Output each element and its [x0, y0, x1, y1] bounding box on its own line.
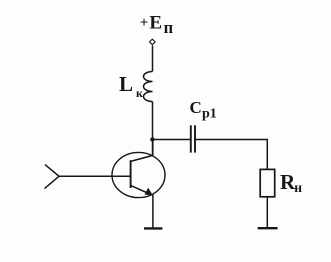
svg-text:+: + — [140, 15, 149, 31]
capacitor Cр1 — [191, 125, 195, 152]
wire: emitter to ground — [152, 195, 154, 229]
ground (emitter side) — [144, 227, 162, 229]
wire: input terminal to base — [59, 175, 131, 177]
svg-text:н: н — [294, 180, 302, 195]
svg-text:к: к — [136, 86, 143, 100]
transistor base line — [130, 160, 132, 188]
wire: junction to capacitor Cр1 — [153, 139, 191, 141]
label Cр1 — [190, 98, 217, 122]
ground (load side) — [258, 227, 278, 229]
resistor Rн — [260, 169, 275, 196]
svg-text:п: п — [164, 18, 174, 37]
wire: resistor Rн to ground — [266, 197, 268, 228]
svg-text:C: C — [190, 98, 202, 117]
transistor (NPN) — [112, 140, 165, 198]
node: collector junction (dot) — [150, 137, 154, 141]
inductor Lк — [144, 72, 153, 102]
supply terminal (diamond) — [150, 39, 156, 45]
wire: capacitor Cр1 to resistor Rн (with corner) — [195, 140, 267, 170]
wire: inductor Lк to collector node — [152, 102, 154, 156]
transistor collector lead — [131, 140, 153, 161]
wire: supply terminal to inductor Lк — [152, 46, 154, 72]
label Lк — [119, 72, 143, 100]
transistor emitter lead with arrow — [131, 185, 153, 195]
label +Eп (supply) — [140, 13, 174, 37]
label Rн — [280, 170, 302, 195]
input terminal (arrow fork) — [45, 165, 60, 189]
svg-text:E: E — [149, 13, 162, 34]
svg-text:р1: р1 — [202, 107, 217, 122]
svg-text:L: L — [119, 72, 133, 96]
transistor body circle — [112, 152, 165, 197]
